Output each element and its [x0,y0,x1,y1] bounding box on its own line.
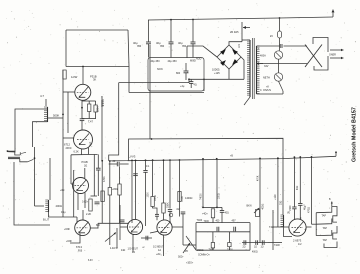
svg-text:600: 600 [96,225,101,227]
wire bridge top [229,42,242,45]
svg-text:COMM+O+: COMM+O+ [198,255,210,257]
resistor R8 box [101,191,104,202]
wire V3 grid [71,183,73,185]
lamp P1 [274,51,282,59]
svg-text:+B: +B [230,156,233,158]
svg-text:+1Ω0: +1Ω0 [275,194,277,200]
wire V5 cath [132,234,134,252]
svg-text:100Ω: 100Ω [155,195,157,201]
pot VR0 [105,233,116,242]
wire busA [129,138,283,160]
wire bus3 [110,156,336,161]
svg-text:2 6973: 2 6973 [293,239,302,243]
box cap can [148,58,204,92]
coil L2 input [48,200,50,212]
plug bracket bottom [314,56,328,70]
svg-text:PF: PF [185,250,189,253]
svg-text:T.47: T.47 [88,120,93,124]
pot VR2 box [256,210,260,217]
resistor R2 box [88,101,90,104]
svg-text:Gretsch Model B4157: Gretsch Model B4157 [352,107,358,162]
capacitor C13 in can [185,63,187,71]
wire feedback left [65,30,67,67]
svg-text:100Ω: 100Ω [219,193,221,199]
node d311 [311,156,313,158]
wire drop x102 [101,161,103,224]
capacitor C30 [120,219,125,221]
tube V2 (1/2 6EU7) [74,130,93,149]
svg-text:40Ω: 40Ω [297,185,299,190]
node B+ j3 [279,17,281,19]
wire cap1 drop [148,20,150,42]
wire V1 grid lead [63,91,75,93]
wire L1 bottom left [33,122,48,147]
pot VR1 wiper [186,236,196,250]
wire x187 vert [186,46,188,58]
svg-text:1MEG: 1MEG [197,250,204,252]
node d294 [294,156,296,158]
capacitor C31 [145,236,147,241]
wire V4 out riser [97,223,99,228]
wire R23 tail [228,247,230,251]
svg-text:4μF: 4μF [89,141,92,146]
svg-text:6.3V: 6.3V [88,260,93,262]
capacitor C20 [216,227,218,232]
diode D1 [220,49,226,55]
wire drop x203 [202,159,204,208]
diode D4 [220,60,226,66]
svg-text:C: C [260,89,262,92]
capacitor C5 [95,201,100,203]
wire x34 bottom [35,205,45,207]
capacitor C8 [292,206,296,208]
label arrow mid [257,63,264,65]
wire R22 tail [212,248,214,250]
svg-text:ON/US: ON/US [263,89,271,92]
svg-text:2R 4Ω5: 2R 4Ω5 [230,31,239,34]
svg-text:40μ 450: 40μ 450 [151,60,161,63]
wire x50 input [49,158,51,200]
svg-text:NETH: NETH [263,77,270,80]
switch S1 [279,81,284,91]
wire L1 right tap [48,117,64,119]
svg-text:497: 497 [232,220,237,223]
wire drop x260 [259,158,261,242]
wire V2 cath a [81,149,83,155]
svg-text:+1EG+: +1EG+ [186,263,194,265]
capacitor C6 [190,79,192,81]
node jack J1 tip [7,150,9,152]
wire R2 bottom lead [88,112,90,119]
svg-text:34V: 34V [264,65,269,68]
wire V4 grid [75,217,77,225]
wire cap3 drop [192,20,194,42]
wire vert x63 [62,70,64,217]
wire T1 top lead [242,39,250,41]
wire drop x300 [299,157,301,203]
arrow plug out2 [330,57,344,59]
wire mid h164 [109,163,117,165]
svg-text:1500: 1500 [289,205,292,211]
node d278 [277,157,279,159]
svg-text:2Ω: 2Ω [243,247,246,249]
svg-text:0Ω2+: 0Ω2+ [178,257,184,259]
resistor R12 box [178,192,181,202]
wire L2 bottom [49,212,78,217]
svg-text:350: 350 [160,45,165,48]
wire y66 [66,66,129,68]
resistor R22 box [211,243,214,248]
wire tone h3 [196,249,250,251]
circle marker [169,213,173,217]
jack J2 [20,159,28,162]
svg-text:40μF: 40μF [304,204,307,210]
wire cap2 tail [170,44,172,58]
wire drop x170 [169,160,171,208]
wire R20 tail [212,218,214,223]
coil choke [283,215,285,227]
transformer T1 winding A [249,40,251,97]
wire R33 down [119,195,121,223]
svg-text:4Ω: 4Ω [194,84,197,87]
svg-text:T42R: T42R [274,245,280,247]
wire x300 low [299,205,301,219]
wire caps chain [242,242,268,244]
node d145 [145,159,147,161]
wire V7 right [306,226,311,228]
arrow plug out1 [330,49,344,51]
tube V6 (1/2 6EU7) [157,220,172,235]
wire V3 plate [84,168,86,178]
wire drop x130 [131,160,133,223]
svg-text:470Ω: 470Ω [308,207,311,213]
svg-text:2.2K: 2.2K [86,213,91,216]
svg-text:T400: T400 [197,219,203,222]
coil L1 [47,107,49,122]
wire drop x217 [216,159,218,208]
svg-text:400Ω: 400Ω [56,204,62,208]
svg-text:6.2K: 6.2K [74,151,79,154]
svg-text:40Ω: 40Ω [225,213,230,215]
svg-text:er: er [143,246,145,249]
wire R3 bottom lead [95,112,97,119]
node y79 j1 [188,78,190,80]
svg-text:+2Ω: +2Ω [156,254,161,256]
diode D2 [232,49,238,55]
svg-text:1400Ω: 1400Ω [185,197,193,200]
resistor R33 box [118,184,121,195]
svg-text:400A: 400A [260,55,266,58]
capacitor C21 [233,227,235,232]
wire T1 right top [257,45,280,47]
svg-text:+0Ω: +0Ω [60,190,65,192]
node B+ j1 [170,19,172,21]
wire V4 plate [82,210,84,220]
wire jack feed [312,223,317,225]
plug bracket top [313,38,328,53]
svg-text:400: 400 [216,221,221,223]
svg-text:ONER: ONER [329,54,336,57]
wire mid h223 [98,222,128,224]
node d130 [131,160,133,162]
capacitor C2 [96,167,101,169]
svg-text:LVV3: LVV3 [129,155,136,159]
svg-text:1Ω: 1Ω [261,247,264,249]
svg-text:1Ω: 1Ω [254,247,257,249]
jack SPK3 [316,230,332,236]
jack J1 sleeve [8,156,20,158]
svg-text:B: B [329,199,331,201]
resistor R23 box [228,243,231,247]
svg-text:44Ω: 44Ω [121,250,126,252]
node V1 cath junction [81,107,83,109]
diode D3 [232,59,238,65]
wire h238 [141,237,152,239]
svg-text:0.1: 0.1 [146,165,150,168]
wire x283 down [282,157,284,215]
jack SPK1 [316,207,337,223]
wire drop x110 [109,161,111,188]
node V1 plate tap [82,66,84,68]
svg-text:+6NF: +6NF [66,240,72,243]
svg-text:B.LIT: B.LIT [43,218,50,222]
tube V4 (1/2 6EU7) [75,220,91,236]
fuse F1 [278,31,282,38]
svg-text:BKN: BKN [247,205,252,208]
wire cap arrow [45,99,47,106]
node B+ j2 [192,19,194,21]
svg-text:TAP: TAP [322,215,327,218]
svg-text:3K: 3K [93,78,96,82]
svg-text:40μ 450: 40μ 450 [168,60,178,63]
node d217 [216,158,218,160]
svg-text:NON: NON [157,68,163,71]
resistor R20 box [211,209,214,218]
svg-text:1A: 1A [158,249,161,252]
wire V6 out [172,226,183,228]
node x63 coil tap [62,114,64,116]
wire drop x294 [293,157,295,207]
svg-text:1/2: 1/2 [298,243,302,246]
tube V3 (1/2 6EU7) [73,178,89,194]
pot VR2 wiper [254,208,259,213]
svg-text:400Ω: 400Ω [252,252,258,254]
wire drop x138 [135,160,137,219]
svg-text:+125: +125 [214,72,220,75]
svg-text:TAP: TAP [323,239,328,242]
wire drop x154 [152,160,154,196]
wire B+ bus [148,17,333,20]
wire R23 riser [228,232,230,243]
lamp P2 [274,73,282,81]
svg-text:800: 800 [176,72,181,75]
capacitor C19 [221,207,223,210]
svg-text:2A: 2A [132,251,135,254]
bridge outline [217,45,241,69]
wire tone right v [249,223,251,251]
wire drop x178 [179,160,181,217]
wire drop x162 [163,160,165,203]
node d102 [101,160,103,162]
node d138 [135,160,137,162]
svg-text:kV: kV [270,34,273,38]
svg-text:330K: 330K [167,202,170,208]
wire h207 [203,206,217,208]
wire vert x74 [73,170,75,217]
wire V4 out right [90,227,98,229]
wire plug upper [284,45,308,47]
wire T1 right mid [257,63,308,65]
wire V3 cath [77,193,79,210]
node d170 [169,159,171,161]
node h207 b [216,207,218,209]
wire mains drop [279,18,281,31]
node d162 [163,159,165,161]
svg-text:+80Ω: +80Ω [112,188,118,191]
svg-text:TAP: TAP [323,227,328,230]
wire drop x278 [277,158,279,227]
transformer T1 winding B [256,46,258,94]
svg-text:1/2W: 1/2W [71,75,78,79]
svg-text:4.4Ω W: 4.4Ω W [110,248,119,250]
wire cath branch [82,100,96,102]
wire T1 right bot [257,93,284,95]
svg-text:350: 350 [137,45,142,48]
capacitor C1 .047 [80,118,85,120]
plug X [305,45,322,68]
wire switch to T1 [282,91,284,94]
svg-text:1500: 1500 [148,192,150,198]
wire V1 cathode [81,100,83,118]
wire vert x68 [67,92,69,133]
capacitor C11 40uF [169,41,174,43]
wire V3 out [84,193,86,208]
node d203 [202,158,204,160]
wire V2 cath b [87,148,89,155]
wire feedback top [66,29,128,31]
node d178 [179,159,181,161]
resistor R1 box [63,70,66,79]
tube V7 (6973) [289,219,306,236]
capacitor C32 [181,211,186,213]
wire phase h [183,244,196,246]
svg-text:0.1μ: 0.1μ [61,212,66,214]
wire choke down [284,227,293,237]
svg-text:470K: 470K [257,175,259,181]
node can y79 [203,79,205,81]
wire jack left vert [315,213,317,236]
svg-text:33Ω: 33Ω [280,200,282,205]
wire V2 grid lead [63,137,74,139]
wire tone h2 [196,231,250,233]
wire bridge left diag [187,46,217,57]
wire C7 down [119,167,121,185]
resistor R7 box [89,199,92,211]
wire V6 grid [150,231,158,233]
wire T1 primary diag [244,97,250,105]
wire P1 P2 [278,59,280,73]
wire feedback right [128,30,129,93]
wire cap2 drop [170,20,172,42]
svg-text:6T13: 6T13 [76,245,82,249]
wire bus3 riser [335,153,337,157]
capacitor C24 [261,240,263,245]
wire bridge right [241,57,244,79]
svg-text:2R R: 2R R [66,146,72,150]
wire x94 vert [93,155,95,196]
wire x120 vert [119,205,121,240]
svg-text:470K: 470K [103,176,106,182]
wire V7 grid [273,226,289,228]
wire caps out up [268,242,282,244]
wire bridge bottom [228,69,230,79]
wire V3 grid tie [70,155,72,184]
wire fuse tail [279,38,281,51]
wire V5 grid [120,226,128,228]
svg-text:270K: 270K [182,196,184,202]
svg-text:500K: 500K [53,114,59,118]
wire box2 top y82.6 [119,79,189,82]
svg-text:+4Ω+: +4Ω+ [202,214,208,216]
wire vert x102 top [101,96,103,161]
wire tone left v [195,223,197,251]
node bus3 end [335,151,337,153]
wire C1 to V2 [81,121,83,131]
wire V6 cath [163,235,165,256]
svg-text:115: 115 [238,44,241,48]
svg-text:VD: VD [287,213,291,215]
resistor R4 marks [101,100,103,107]
wire x110 lower [109,195,111,245]
wire x34 vertical [34,147,36,206]
svg-text:T4000: T4000 [200,193,202,200]
wire cath bottom join [82,118,96,120]
svg-text:+4μ: +4μ [180,85,185,88]
node d260 [259,158,261,160]
svg-text:T4Ω: T4Ω [269,226,274,229]
wire R7 top join [91,195,98,197]
wire cap3 tail [192,44,194,58]
wire x97 down2 [97,170,99,196]
svg-text:400Ω: 400Ω [263,204,265,210]
node d300 [299,156,301,158]
wire jack drop x14 [14,162,50,225]
wire bus y79 [189,78,244,80]
wire mid h164b [120,163,129,165]
wire x150 long drop [149,45,151,139]
transformer T1 core [252,38,254,99]
capacitor C12 40uF [191,41,196,43]
wire V1 plate lead [82,67,84,85]
wire drop x311 [311,157,313,224]
node x34 junction [34,157,36,159]
svg-text:3Ω: 3Ω [84,164,87,167]
capacitor C10 40uF [146,41,151,43]
svg-text:6T12: 6T12 [64,143,70,147]
capacitor C35 [133,173,138,175]
wire x118 vertical [109,83,119,161]
svg-text:R.B: R.B [78,250,83,253]
node busA start dot [151,138,153,140]
svg-text:350: 350 [182,45,187,48]
wire bus y92 [129,92,204,94]
node d154 [152,159,154,161]
resistor R8b box [108,188,111,196]
node d110 [109,160,111,162]
wire V2 cath bus [71,153,98,155]
wire drop x145 [145,160,147,170]
wire x183 vert [182,214,184,245]
